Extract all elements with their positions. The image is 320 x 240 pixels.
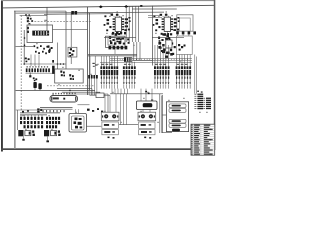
relay module RM2 <box>44 130 49 136</box>
wire between clusters <box>119 124 138 126</box>
wires switch to strip <box>30 55 32 67</box>
wire h under U1 <box>104 37 136 39</box>
wire stack connect 2 <box>162 131 172 133</box>
wires CN5 to bus <box>140 89 142 94</box>
solenoid L1 <box>33 82 36 88</box>
bus pair y113 <box>20 112 60 114</box>
wires around small box <box>90 94 97 96</box>
connector label text CN5 <box>155 64 158 65</box>
wire door lock right <box>87 125 102 127</box>
junction dot 2 <box>24 44 26 46</box>
relay stack outer box <box>166 102 188 132</box>
long rail x87.5 <box>87 7 89 95</box>
junction marks y91 <box>145 91 147 93</box>
connector tick row CN4 <box>123 77 124 79</box>
ticks above element <box>53 93 54 95</box>
component cluster below IC2 <box>161 33 163 35</box>
contact cluster B <box>69 74 71 76</box>
display window <box>143 103 153 107</box>
IC pins right1 <box>122 18 124 19</box>
wires above CN7 <box>89 56 91 75</box>
solenoid pilot mark <box>29 75 31 77</box>
wires bus to CN3 <box>100 56 102 66</box>
connector upper pin row CN6 <box>176 66 178 69</box>
wire left rail to grid <box>17 110 19 130</box>
bus line y9 <box>132 8 177 10</box>
transistor cluster Q1 <box>48 45 50 47</box>
mechanical linkage (dashed) <box>47 85 95 87</box>
component cluster x24-30 y57 <box>25 58 27 60</box>
junction dots y64 <box>57 63 59 65</box>
wire y88.6 <box>57 88 92 90</box>
wire drop x47 <box>46 8 48 31</box>
marks left of regulator <box>158 42 161 45</box>
wire feed y62.5 <box>100 62 192 64</box>
stacked marks x37-40 <box>37 108 39 110</box>
capacitors left2 <box>156 19 159 21</box>
diode marks upper right1 <box>128 17 130 19</box>
resistor bank right lower1 <box>124 29 127 31</box>
oven element E1 <box>50 96 78 103</box>
wires down to M2 <box>140 94 142 101</box>
wire rail x24 <box>23 30 25 64</box>
wires into IC2 cluster <box>148 15 162 17</box>
door lock marks <box>75 118 78 121</box>
element end caps <box>51 97 52 101</box>
dashed line console <box>28 20 92 22</box>
relay module RM1 <box>18 130 23 136</box>
console box P10 <box>27 25 53 43</box>
dashed rail <box>20 15 22 110</box>
wire console to rail <box>53 28 88 30</box>
wires block to CN4 <box>126 62 128 67</box>
junction dot <box>24 37 26 39</box>
junction marks above M1 <box>87 109 90 111</box>
filter box below shield <box>176 36 192 55</box>
wire h y64 <box>24 63 66 65</box>
bus marker diamond 2 <box>124 5 128 8</box>
IC box U2 <box>164 17 170 31</box>
relay box low M1 <box>102 130 118 135</box>
box side tabs M1 <box>102 115 103 117</box>
connector lower pin row CN4 <box>123 70 125 75</box>
wire drop x57.5 <box>57 43 59 70</box>
relay pill low M2 <box>141 131 147 133</box>
K1 extra marks <box>30 18 32 20</box>
capacitors left1 <box>107 19 110 21</box>
resistor bank right1 <box>125 18 128 20</box>
wires door lock top <box>75 109 77 113</box>
IC pins left1 <box>113 18 115 19</box>
diode marks upper right2 <box>177 17 179 19</box>
page border left <box>1 0 3 152</box>
connector strip in console (dark band) <box>32 31 49 36</box>
relay box mid M1 <box>102 122 118 128</box>
connector labels row <box>27 66 28 67</box>
wire drop x66 <box>65 11 67 69</box>
relay K2 box <box>68 47 77 57</box>
resistor bank right lower2 <box>173 29 176 31</box>
connector tick row CN3 <box>101 77 102 79</box>
wire bus y90 <box>16 89 96 91</box>
bus marker diamond 1 <box>99 5 103 8</box>
pin grid row 1 <box>20 117 22 120</box>
wires between M1 M2 <box>120 94 122 125</box>
relay pill mid M1 <box>104 124 109 126</box>
wires with terminals below CN3 <box>100 75 102 82</box>
wire stack connect 1 <box>162 114 166 116</box>
label specks <box>109 15 111 18</box>
IC U3 box <box>106 36 126 47</box>
wire K2 up <box>70 13 72 47</box>
U3 right marks outside <box>127 38 129 40</box>
wire K2 down <box>70 57 72 64</box>
wire h under U2 <box>152 37 184 39</box>
component K1 (top-left) <box>27 17 29 19</box>
page border top <box>1 0 215 1</box>
terminal column TB1 <box>197 94 203 95</box>
junction dot y90 <box>69 90 71 92</box>
filter box parts <box>178 44 180 46</box>
inner frame rail (left gray band) <box>14 11 16 149</box>
resistor tops right <box>176 31 179 34</box>
wire RM tail <box>47 136 49 140</box>
terminal column TB2 <box>206 98 211 99</box>
long wire x152.5 <box>152 6 154 66</box>
connector upper pin row CN3 <box>100 66 102 69</box>
wire hook x47 <box>44 19 47 21</box>
door lock box outer <box>69 114 87 133</box>
label text left of CN3 <box>92 63 94 64</box>
IC stem wires1 <box>117 31 119 33</box>
wire y94 <box>66 93 108 95</box>
wire IC up2 <box>165 11 167 14</box>
bus pair y107 <box>40 106 73 108</box>
relay pill low M1 <box>104 131 110 133</box>
small box above <box>96 93 104 98</box>
wires grid drops <box>20 115 22 117</box>
display module DS1 <box>136 101 157 110</box>
RM2 tail mark <box>46 140 49 142</box>
contact cluster A <box>60 71 62 73</box>
junction dot 3 <box>23 63 25 65</box>
resistor tops center <box>112 32 114 35</box>
control box outline M1 <box>101 112 119 121</box>
connector CN7 strip <box>88 75 90 79</box>
long rail x89.5 <box>89 13 91 91</box>
corner ticks near TB1 <box>197 91 199 92</box>
CN2 bottom edge <box>26 72 55 74</box>
wires CN3 to bus <box>111 89 113 94</box>
component cluster below IC1 <box>112 33 114 35</box>
wire drops center <box>125 6 127 42</box>
IC pins right2 <box>171 18 173 19</box>
marks above IC2 <box>160 14 163 16</box>
wire drops center lower <box>133 42 135 61</box>
RM1 tail mark <box>22 139 24 141</box>
stub marks below M2 <box>144 137 146 139</box>
IC pins left2 <box>162 18 164 19</box>
control box outline M2 <box>138 112 156 121</box>
dense marks below U2 <box>159 42 161 44</box>
page border right <box>214 0 216 150</box>
door lock box inner <box>72 116 85 130</box>
connector lower pin row CN5 <box>154 70 156 75</box>
page border bottom <box>1 148 214 150</box>
wire drop x30 <box>29 72 31 76</box>
wires with terminals below CN4 <box>123 75 125 82</box>
knob right M1 <box>112 114 116 118</box>
knob right M2 <box>149 114 153 118</box>
wire harness ladder <box>110 58 192 60</box>
horizontal bus y93.8 <box>110 93 163 95</box>
wires to TB1 <box>194 55 196 94</box>
marks above regulator <box>162 33 164 35</box>
wire element to rail <box>78 104 90 106</box>
connector tick row CN5 <box>154 77 155 79</box>
cap marks upper left2 <box>153 15 155 17</box>
switch cluster S1-S6 <box>34 45 36 47</box>
U3 inner box <box>108 37 115 45</box>
ticks above K1 <box>26 16 31 18</box>
connector label text CN6 <box>177 64 180 65</box>
bus tick x141 <box>140 5 142 7</box>
U3 stem <box>114 47 116 54</box>
connector CN2 pin row <box>26 68 28 72</box>
element label text <box>53 97 59 99</box>
box side tabs M2 <box>139 115 140 117</box>
inner frame top line <box>14 10 66 12</box>
knob left M1 <box>104 114 108 118</box>
connector tick row CN6 <box>176 77 177 79</box>
relay stack pills K3-K6 <box>169 104 186 108</box>
connector upper pin row CN4 <box>123 66 125 69</box>
wires with terminals below CN5 <box>154 75 156 82</box>
connector lower pin row CN6 <box>176 70 178 75</box>
pin grid row 2 <box>20 121 22 124</box>
marks below regulator <box>162 51 165 54</box>
diode row below U3 <box>109 46 112 50</box>
bus line N <box>44 13 113 16</box>
wires IC2 to CN5 <box>154 45 156 66</box>
display tick <box>151 99 153 100</box>
IC stem wires2 <box>166 31 168 33</box>
bus line L1 <box>2 5 214 8</box>
inner corner line 2 <box>20 14 47 16</box>
element dot <box>63 98 65 100</box>
knob left M2 <box>141 114 145 118</box>
connector lower pin row CN3 <box>100 70 102 75</box>
pin grid row 3 <box>24 125 26 128</box>
wires to CN6 <box>176 55 178 67</box>
wire RM1 tail <box>23 136 25 139</box>
marks above IC1 <box>111 14 114 16</box>
switch box SW10 <box>55 69 83 83</box>
wires with terminals below CN6 <box>176 75 178 82</box>
relay box low M2 <box>139 130 155 135</box>
wires down to M1 <box>104 94 106 112</box>
component pads x27 <box>27 27 29 29</box>
fuse F1 on bus <box>71 11 74 15</box>
shield box around U2 <box>177 15 193 31</box>
small connector block <box>124 57 132 62</box>
connector CN2 end cap <box>52 66 55 74</box>
solenoid L2 <box>38 83 41 89</box>
shield box inner <box>180 18 191 31</box>
stub marks below M1 <box>108 137 110 139</box>
bus small marks <box>22 111 24 113</box>
wires below CN7 <box>88 79 90 96</box>
regulator box <box>166 40 172 48</box>
cap marks upper left1 <box>104 15 106 17</box>
title block table <box>191 124 215 155</box>
connector label text CN3 <box>101 64 104 65</box>
wire y92.2 <box>62 91 100 93</box>
wires M2 box <box>142 110 144 113</box>
bus line L2 <box>16 12 165 13</box>
wire IC up1 <box>116 11 118 14</box>
wire left of stack <box>161 95 163 133</box>
wire to switch cluster <box>16 46 34 48</box>
relay extra pill <box>172 129 180 132</box>
relay K2 contacts <box>70 48 72 50</box>
bus pair y54-56 <box>88 53 137 55</box>
resistor bank right2 <box>174 18 177 20</box>
vertical pair right of M2 <box>159 94 161 133</box>
valve cluster marks <box>33 77 35 79</box>
connector upper pin row CN5 <box>154 66 156 69</box>
U3 side parts <box>118 38 121 40</box>
connector label text CN4 <box>124 64 127 65</box>
wire h y60.5 <box>133 60 153 62</box>
relay box mid M2 <box>139 122 155 128</box>
ticks below bus y110 <box>43 110 44 112</box>
IC box U1 <box>115 17 121 31</box>
relay pill mid M2 <box>141 124 146 126</box>
